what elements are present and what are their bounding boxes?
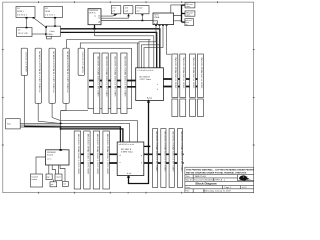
wire strip5 riser (80, 43, 138, 68)
svg-text:d: d (120, 155, 121, 157)
bus 1 clock to interconnect (61, 29, 160, 68)
wire strip1 down (23, 75, 25, 126)
stub video ctl right bottom (144, 146, 151, 148)
svg-text:MCM68764 EPROM 8K X 8 BIT 250N: MCM68764 EPROM 8K X 8 BIT 250NS 64 (38, 52, 40, 94)
lower RAM strip L4 (103, 131, 109, 189)
svg-text:TMS4416 DRAM 16K X4 150NS: TMS4416 DRAM 16K X4 150NS (200, 57, 203, 89)
svg-text:ad: ad (98, 22, 100, 24)
svg-text:THIS PRINTED MATERIAL - COPYIN: THIS PRINTED MATERIAL - COPYING RETAINED… (186, 168, 255, 171)
sound chip box (46, 149, 70, 165)
svg-text:h: h (157, 89, 158, 91)
svg-text:74LS373 OCT LATCH: 74LS373 OCT LATCH (81, 52, 84, 74)
svg-text:File:: File: (186, 191, 190, 193)
strip RB1 (172, 99, 178, 117)
wire interconnect to R boxes vertical (171, 5, 182, 22)
wire sound to keyboard box (36, 157, 46, 174)
wire strip4 riser (67, 40, 151, 68)
joy box 4 (62, 181, 68, 186)
svg-text:MK4116N-2 DRAM 16384 X 1 BIT 2: MK4116N-2 DRAM 16384 X 1 BIT 200NS (106, 134, 109, 175)
lower RAM strip L2 (84, 131, 90, 189)
bottom-right RAM strip BR1 (153, 129, 159, 188)
thick data bus to Z80 pin1 (24, 126, 120, 143)
timing box output wires (20, 123, 129, 142)
svg-text:out: out (137, 9, 140, 12)
svg-text:A-tag: A-tag (147, 97, 152, 100)
video bus right lower (163, 86, 203, 88)
test point box below clock (47, 36, 52, 39)
strip RB2 (180, 99, 186, 117)
svg-text:TANDY1000: TANDY1000 (195, 175, 207, 178)
box R1 (185, 2, 195, 8)
left RAM strip 3 (49, 48, 55, 103)
svg-text:Wednesday, January 15, 2003: Wednesday, January 15, 2003 (203, 190, 231, 193)
svg-text:8 2 3 6 4 1: 8 2 3 6 4 1 (17, 15, 28, 17)
CPU bottom stub wire (93, 25, 96, 30)
svg-text:c1 a0 d3 rs w1 ck: c1 a0 d3 rs w1 ck (138, 69, 155, 72)
page border frame (2, 1, 255, 194)
svg-text:MK4116N-2 DRAM 16384 X 1 BIT 2: MK4116N-2 DRAM 16384 X 1 BIT 200NS (124, 57, 127, 98)
svg-text:Page 1: Page 1 (225, 187, 232, 189)
wire junction to container (61, 110, 88, 112)
svg-text:Date:: Date: (186, 186, 191, 189)
video controller U3 (MC6845) (136, 68, 164, 101)
strip RA3 (190, 54, 196, 98)
VRAM chip strip U4 (121, 53, 127, 114)
joy box 2 (55, 174, 62, 181)
VRAM bus lower bar (89, 86, 136, 88)
wire strip4 down to junction (61, 103, 66, 110)
svg-text:conn: conn (186, 15, 190, 17)
box T3 (136, 6, 150, 14)
svg-text:Title:: Title: (186, 175, 191, 178)
sound cluster wires (49, 165, 65, 182)
VRAM chip strip U1 (94, 53, 100, 114)
interconnect bottom pin dots (155, 24, 167, 26)
svg-text:prt: prt (51, 183, 54, 186)
wire CPU to T2 with arrow (101, 14, 130, 18)
svg-text:rf mod: rf mod (137, 6, 143, 9)
svg-text:TMS4416 DRAM 16K X4 150NS: TMS4416 DRAM 16K X4 150NS (174, 57, 177, 89)
lower data bus 1 (74, 153, 183, 155)
strip RA2 (180, 54, 186, 98)
svg-text:MK4116N-2 DRAM 16384 X 1 BIT 2: MK4116N-2 DRAM 16384 X 1 BIT 200NS (155, 132, 158, 173)
VRAM chip strip U2 (102, 53, 108, 114)
thick data bus to Z80 pin2 (61, 129, 123, 143)
keyboard box (31, 174, 43, 187)
bus line S3 east (60, 121, 137, 142)
left RAM strip 2 (35, 48, 41, 103)
svg-text:VDP IC: VDP IC (89, 12, 96, 14)
bus 2 clock to interconnect (61, 32, 157, 67)
svg-text:74 LS 1 38: 74 LS 1 38 (18, 33, 29, 35)
joy box 1 (46, 174, 52, 180)
svg-text:vid: vid (112, 10, 115, 12)
interconnect U2 (153, 13, 174, 25)
wire A to C (25, 17, 27, 28)
wire strip3 down (52, 103, 60, 120)
svg-text:MK4116N-2 DRAM 16384 X 1 BIT 2: MK4116N-2 DRAM 16384 X 1 BIT 200NS (172, 132, 175, 173)
svg-text:aud: aud (125, 10, 128, 12)
lower RAM strip L3 (93, 131, 99, 189)
arrow into video controller bottom (127, 99, 150, 183)
left RAM strip 4 (63, 48, 69, 103)
svg-text:Block Diagram: Block Diagram (196, 182, 217, 186)
wire B to D (54, 17, 56, 27)
wire strip2 down (38, 103, 60, 123)
svg-text:conn: conn (186, 6, 190, 8)
logo eagle (239, 175, 250, 180)
svg-text:Z80A: Z80A (154, 16, 160, 19)
svg-text:TMS4416 DRAM 16K X4 150NS: TMS4416 DRAM 16K X4 150NS (192, 57, 195, 89)
left RAM strip 5 (78, 48, 84, 75)
T3 riser to bus (141, 14, 143, 21)
bottom-right RAM strip BR4 (177, 129, 183, 188)
svg-text:REV: A 1: REV: A 1 (216, 179, 226, 182)
svg-text:MK4116N-2 DRAM 16384 X 1 BIT 2: MK4116N-2 DRAM 16384 X 1 BIT 200NS (180, 132, 183, 173)
box B (top-left ROM 2) (44, 7, 63, 18)
bottom-right RAM strip BR3 (169, 129, 175, 188)
svg-text:matrix: matrix (32, 178, 38, 181)
svg-text:1 MHz: 1 MHz (47, 34, 53, 36)
VRAM bus upper bar (89, 80, 136, 82)
nest wire p1 (139, 25, 156, 68)
box T1 (111, 6, 121, 14)
VRAM array container (88, 48, 132, 108)
junction dots on vertical (60, 123, 62, 130)
svg-text:ext: ext (63, 183, 66, 186)
nest wire p4 to right RAM strips (167, 25, 172, 55)
svg-text:cs in: cs in (47, 158, 51, 160)
svg-text:MCM68764 EPROM 8K X 8 BIT 250N: MCM68764 EPROM 8K X 8 BIT 250NS 64 (52, 52, 54, 94)
strip RB3 (190, 99, 196, 117)
svg-text:Xtal: Xtal (7, 123, 11, 126)
nest wire p3 (144, 25, 163, 68)
svg-text:1 4 1 3 2 1: 1 4 1 3 2 1 (45, 15, 56, 17)
joy box 3 (50, 182, 57, 187)
lower data bus 2 (74, 162, 183, 164)
box D (clock gen) (46, 26, 61, 36)
lower RAM strip L1 (74, 131, 80, 189)
CPU2 Z80 (117, 142, 144, 176)
svg-text:Sound: Sound (47, 154, 53, 156)
stub to R3 (182, 21, 185, 23)
svg-text:TMS4416 DRAM 16K X4 150NS: TMS4416 DRAM 16K X4 150NS (182, 57, 185, 89)
stub to R2 (182, 13, 186, 15)
left RAM strip 1 (21, 48, 27, 75)
box R3 (185, 19, 194, 26)
bus arrows into Z80 top (119, 142, 124, 145)
svg-text:CRTC Video: CRTC Video (140, 79, 152, 81)
svg-text:MAY BE CHARGED UNDER POSTAL FE: MAY BE CHARGED UNDER POSTAL FEDERAL STAT… (186, 171, 247, 174)
CPU stub line to video controller (95, 29, 154, 68)
svg-text:cn: cn (186, 24, 188, 26)
diagonal wire A to D (33, 17, 47, 28)
svg-text:MCM68764 EPROM 8K X 8 BIT 250N: MCM68764 EPROM 8K X 8 BIT 250NS 64 (66, 52, 68, 94)
svg-text:ROM 1: ROM 1 (17, 11, 24, 13)
svg-text:ROM: ROM (45, 11, 50, 13)
svg-text:cs: cs (94, 16, 96, 18)
strip RA4 (198, 54, 204, 98)
video bus right upper (163, 78, 203, 80)
bottom-right RAM strip BR2 (161, 129, 167, 188)
vertical wire to sound chip (60, 111, 62, 150)
nest wire p2 (142, 25, 160, 68)
CPU U1 (88, 9, 101, 25)
svg-text:a0 d1 b2 cs w ck: a0 d1 b2 cs w ck (119, 144, 135, 146)
left timing box (6, 119, 21, 129)
svg-text:74LS244 OCT BUFR: 74LS244 OCT BUFR (24, 52, 26, 73)
box T2 (124, 6, 133, 14)
strip RB4 (198, 99, 204, 117)
svg-text:6 MHZ Video: 6 MHZ Video (121, 151, 134, 153)
svg-text:MK4116N-2 DRAM 16384 X 1 BIT 2: MK4116N-2 DRAM 16384 X 1 BIT 200NS (163, 132, 166, 173)
title block (185, 167, 255, 192)
svg-text:MK4116N-2 DRAM 16384 X 1 BIT 2: MK4116N-2 DRAM 16384 X 1 BIT 200NS (96, 134, 99, 175)
strip RA1 (172, 54, 178, 98)
svg-text:MK4116N-2 DRAM 16384 X 1 BIT 2: MK4116N-2 DRAM 16384 X 1 BIT 200NS (114, 57, 117, 98)
svg-text:casst: casst (56, 176, 61, 179)
wire C to D (32, 33, 47, 35)
svg-text:MK4116N-2 DRAM 16384 X 1 BIT 2: MK4116N-2 DRAM 16384 X 1 BIT 200NS (77, 134, 80, 175)
box A (top-left ROM) (16, 7, 35, 18)
svg-text:Size B: Size B (186, 180, 193, 182)
stub to R1 (182, 4, 186, 6)
svg-text:MK4116N-2 DRAM 16384 X 1 BIT 2: MK4116N-2 DRAM 16384 X 1 BIT 200NS (87, 134, 90, 175)
wire CPU to T1 with arrow (101, 14, 118, 17)
box R2 (185, 11, 195, 17)
svg-text:MK4116N-2 DRAM 16384 X 1 BIT 2: MK4116N-2 DRAM 16384 X 1 BIT 200NS (97, 57, 100, 98)
svg-text:q: q (141, 155, 142, 157)
box C (decoder) (17, 28, 33, 37)
svg-text:MK4116N-2 DRAM 16384 X 1 BIT 2: MK4116N-2 DRAM 16384 X 1 BIT 200NS (105, 57, 108, 98)
wire CPU to interconnect (101, 20, 153, 22)
VRAM chip strip U3 (111, 53, 117, 114)
